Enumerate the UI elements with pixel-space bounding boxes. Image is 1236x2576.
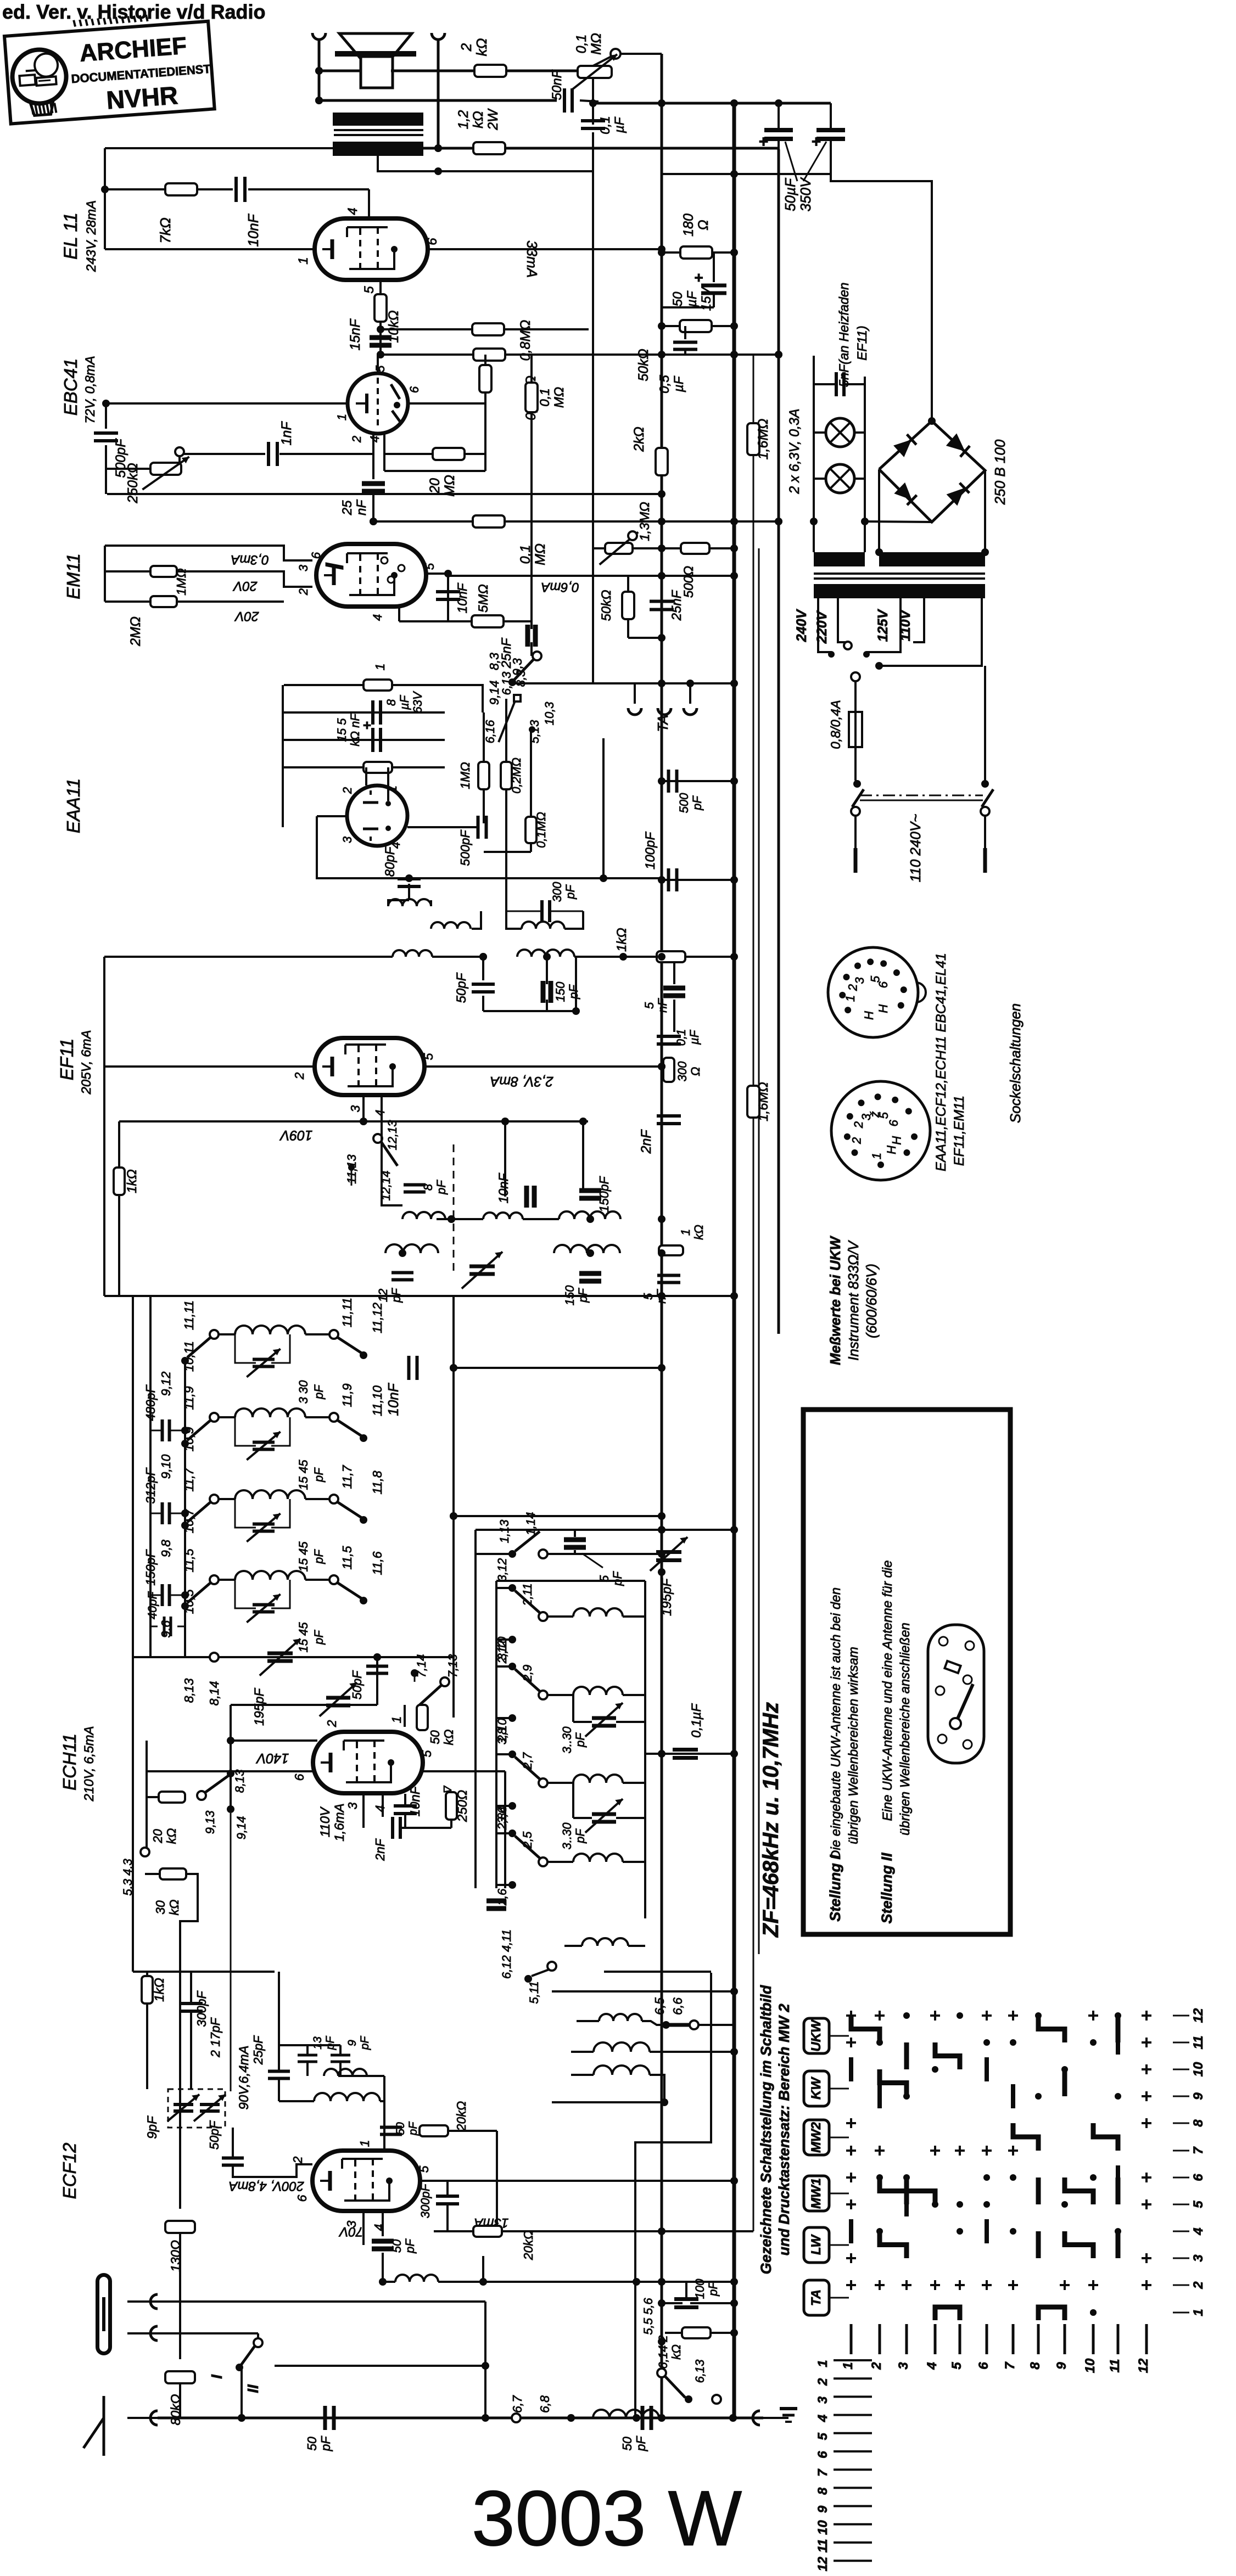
label 1kΩ ecf (152, 1978, 167, 2002)
svg-text:1,14: 1,14 (524, 1512, 538, 1536)
svg-text:1,3MΩ: 1,3MΩ (637, 502, 652, 541)
label 5pF bank (597, 1571, 624, 1586)
svg-text:0,1: 0,1 (574, 35, 589, 54)
label 300Ω (675, 1061, 702, 1081)
capacitor 50pF ecf c (372, 2241, 394, 2249)
svg-text:5: 5 (423, 563, 437, 570)
label 300pF ecf (194, 1990, 209, 2027)
svg-text:0,2MΩ: 0,2MΩ (510, 757, 523, 794)
junction 1337/188 (730, 99, 738, 107)
svg-text:30: 30 (153, 1900, 167, 1915)
svg-text:6,16: 6,16 (483, 720, 497, 744)
resistor 5MΩ (472, 615, 504, 627)
pin2 EM11 (297, 588, 310, 596)
pushbutton contact matrix (841, 2008, 1206, 2373)
label 50kΩ fm (428, 1730, 456, 1746)
wire 20M b (464, 453, 485, 455)
junction 920/2043 (501, 1118, 509, 1125)
svg-text:6,5: 6,5 (652, 1997, 667, 2015)
svg-text:3: 3 (1191, 2254, 1206, 2262)
junction 1205/999 (658, 545, 665, 552)
junction 1337/950 (730, 518, 738, 525)
capacitor 0.1µF (581, 121, 605, 128)
wire to rectifier top (831, 174, 932, 421)
svg-text:5,5 5,6: 5,5 5,6 (641, 2298, 655, 2335)
svg-text:8,13: 8,13 (233, 1769, 247, 1793)
svg-text:195pF: 195pF (252, 1688, 267, 1726)
label 200V (229, 2179, 305, 2193)
rail EBC41 left (105, 403, 107, 429)
junction 880/1743 (479, 953, 487, 961)
svg-text:2W: 2W (485, 108, 501, 131)
label 25nF r (669, 590, 684, 621)
svg-text:pF: pF (359, 2036, 371, 2051)
junction y270 (434, 144, 442, 152)
junction y183 (315, 97, 323, 104)
svg-text:8,3: 8,3 (514, 670, 528, 687)
wire 80p up (409, 876, 410, 878)
rail EL11 left (104, 148, 106, 249)
capacitor 2,6 (486, 1901, 506, 1909)
svg-text:2: 2 (815, 2378, 830, 2386)
wire ecf k2 (382, 2211, 384, 2236)
contact 6,7 (512, 2414, 521, 2422)
svg-text:2: 2 (846, 984, 860, 991)
wire 100p up (685, 2282, 687, 2299)
wire coil k up (482, 2256, 484, 2282)
svg-text:8: 8 (1191, 2119, 1206, 2127)
svg-text:+: + (362, 717, 371, 733)
wire 5nF down (673, 1000, 675, 1032)
label 150pF ef (553, 981, 580, 1002)
resistor 7kΩ (165, 183, 197, 195)
resistor 1MΩ eaa (363, 680, 392, 691)
wire y317 (662, 173, 831, 175)
rail bottom b (626, 2417, 763, 2420)
label 15kΩ 5nF (335, 713, 362, 747)
junction 884/4405 (482, 2414, 489, 2422)
rail y999 (593, 547, 662, 549)
speaker (335, 33, 416, 88)
trimmer 3-30pF b (573, 1783, 645, 1833)
EM11 target innards (320, 557, 405, 583)
capacitor 50pF fm (366, 1666, 388, 1674)
heater v left (813, 356, 815, 552)
rail eaa top2 (392, 685, 483, 712)
svg-text:pF: pF (573, 1828, 587, 1844)
svg-text:180: 180 (681, 214, 696, 237)
wire speaker top-left (319, 70, 361, 72)
svg-text:2,5: 2,5 (521, 1831, 534, 1849)
capacitor 150pF osc (579, 1191, 601, 1198)
junction 826/2492 (450, 1364, 457, 1372)
capacitor 150pF ef (543, 981, 551, 1003)
label 140V (255, 1750, 289, 1766)
svg-text:0,8/0,4A: 0,8/0,4A (829, 700, 843, 749)
wire 7,13 v (444, 1686, 445, 1709)
junction 1205/2762 (658, 1512, 665, 1520)
svg-text:pF: pF (318, 2435, 333, 2452)
svg-text:2MΩ: 2MΩ (128, 616, 143, 647)
label 50nF (550, 69, 564, 100)
label 500pF EBC41 (113, 438, 128, 478)
wire y3590 (604, 1971, 711, 1973)
wire 0.2M vertical seg (484, 355, 486, 403)
svg-text:50: 50 (394, 2122, 407, 2135)
junction speaker left (315, 67, 323, 75)
resistor 2kΩ (474, 65, 506, 77)
svg-text:110V: 110V (318, 1806, 333, 1837)
svg-text:5: 5 (815, 2432, 830, 2440)
svg-text:3: 3 (896, 2362, 911, 2370)
svg-text:240V: 240V (794, 608, 809, 642)
label 20k ech (150, 1828, 178, 1844)
svg-text:1: 1 (296, 257, 311, 264)
svg-text:9: 9 (1191, 2092, 1206, 2100)
bus vertical x1372 (753, 355, 754, 2231)
label 50pF bottom2 (620, 2435, 648, 2452)
svg-text:ZF=468kHz u. 10,7MHz: ZF=468kHz u. 10,7MHz (759, 1702, 783, 1938)
coil ecf b (314, 2093, 380, 2101)
switch I/II antenna (208, 2333, 275, 2393)
coil 6,6 row2 (571, 2042, 738, 2056)
bank mid rail (496, 1787, 505, 1788)
wire ef pin2 (297, 1065, 315, 1068)
label 5nF osc (641, 1289, 668, 1304)
svg-text:pF: pF (690, 795, 704, 811)
trimmer capacitor osc (462, 1252, 502, 1289)
svg-text:12: 12 (815, 2556, 830, 2571)
coil row1b (483, 1213, 523, 1219)
svg-text:25pF: 25pF (251, 2035, 265, 2065)
svg-text:Die eingebaute UKW-Antenne ist: Die eingebaute UKW-Antenne ist auch bei … (829, 1587, 843, 1860)
svg-text:MW2: MW2 (809, 2122, 824, 2153)
capacitor 9pF b (331, 2055, 350, 2062)
junction 1337/999 (730, 545, 738, 552)
svg-text:2nF: 2nF (373, 1838, 387, 1861)
capacitor 150pF (143, 1548, 188, 1606)
svg-text:1: 1 (389, 1716, 404, 1724)
svg-text:50pF: 50pF (454, 972, 469, 1003)
svg-text:1: 1 (843, 995, 857, 1002)
label 20V b (234, 609, 260, 624)
rail EF11 top3 (574, 956, 657, 958)
junction 1337/1603 (730, 876, 738, 884)
wire ant b (158, 2332, 258, 2334)
junction 884/4310 (482, 2362, 489, 2370)
switch contact 8,13 (210, 1653, 219, 1662)
label 10nF EL11 (245, 213, 261, 246)
label 1kΩ osc (679, 1225, 706, 1240)
TA pickup connectors (628, 683, 697, 715)
wire EBC41 grid (372, 434, 374, 454)
label 12pF (376, 1288, 403, 1303)
label 20k ecf b (521, 2230, 535, 2261)
dashed gang line (453, 1144, 455, 1273)
svg-text:pF: pF (324, 2036, 337, 2051)
svg-text:10: 10 (1191, 2062, 1206, 2076)
label 500pF bus (677, 793, 704, 813)
svg-text:11,5: 11,5 (340, 1546, 354, 1569)
wire ech pin4 (382, 1793, 384, 1817)
resistor 1kΩ osc (659, 1245, 683, 1255)
label 17pF (208, 2017, 222, 2058)
svg-text:1: 1 (335, 414, 349, 420)
capacitor 100pF bus (669, 868, 677, 891)
pin5 ef (421, 1053, 435, 1060)
pin6 ecf (295, 2195, 309, 2202)
junction 1205/3195 (658, 1750, 665, 1758)
wire 150po (590, 1202, 591, 1219)
label 1kΩ ef (125, 1169, 139, 1193)
svg-text:10: 10 (815, 2520, 830, 2535)
label 195pF bank (659, 1578, 674, 1616)
svg-text:300: 300 (550, 882, 564, 902)
resistor 130Ω (165, 2221, 195, 2233)
pin 4 EL11 (345, 207, 360, 215)
wire coil k c (438, 2281, 733, 2283)
label 130Ω (169, 2240, 183, 2272)
wire y1842b (575, 957, 577, 1011)
wire v268 a (146, 1972, 148, 1976)
svg-text:MΩ: MΩ (552, 387, 567, 408)
junction 1040/4405 (567, 2414, 575, 2422)
svg-text:MW1: MW1 (809, 2178, 824, 2209)
wire 0.1uF (668, 1044, 669, 1060)
junction 1135/1743 (619, 953, 627, 961)
junction 1205/1943 (658, 1063, 665, 1070)
capacitor 50nF (564, 88, 572, 113)
svg-text:2: 2 (340, 787, 354, 794)
wire y3726 b (339, 2045, 342, 2055)
rail EL11 top (105, 147, 333, 149)
svg-text:150: 150 (553, 981, 567, 1002)
label 1.6MΩ b (756, 1082, 771, 1121)
wire rail y270 (438, 147, 474, 150)
junction 1337/1245 (730, 680, 738, 687)
label sec3 (297, 1541, 326, 1572)
resistor 1.6MΩ a (747, 423, 759, 455)
mains switch pole 1 (840, 780, 868, 873)
svg-text:1kΩ: 1kΩ (152, 1978, 167, 2002)
coil row2 (385, 1244, 438, 1253)
coil row1c (559, 1211, 620, 1219)
wire y594 seg (662, 325, 734, 327)
svg-text:15nF: 15nF (348, 318, 363, 351)
label 25nF em (499, 637, 514, 669)
capacitor 50pF ecf a (222, 2158, 244, 2165)
capacitor 300pF ecf (180, 2003, 203, 2011)
svg-text:10nF: 10nF (455, 582, 470, 613)
svg-text:µF: µF (398, 694, 411, 710)
svg-text:10nF: 10nF (408, 1786, 423, 1816)
svg-text:1: 1 (373, 664, 387, 671)
heater v right (864, 377, 866, 552)
svg-text:3: 3 (297, 564, 310, 571)
svg-text:250kΩ: 250kΩ (125, 463, 141, 503)
svg-text:0,3mA: 0,3mA (231, 552, 269, 567)
junction 1062/2043 (579, 1118, 587, 1125)
label 1M eaa-top (373, 664, 387, 671)
svg-text:100: 100 (693, 2278, 707, 2299)
capacitor 25pF (268, 2072, 290, 2079)
wire 300p ecf a (446, 2181, 449, 2196)
wire EL11 pin5 down (379, 280, 382, 295)
capacitor 25nF em (528, 625, 535, 647)
label 3-30pF b (560, 1822, 587, 1850)
svg-text:5: 5 (373, 365, 387, 372)
label 250kΩ (125, 463, 141, 503)
label 109V (279, 1127, 312, 1143)
svg-text:pF: pF (403, 2238, 417, 2254)
svg-text:2: 2 (325, 1720, 339, 1727)
wire 50pf up (232, 2128, 234, 2158)
wire ef pin3 down (362, 1095, 365, 1121)
wire v560 (306, 2062, 309, 2076)
label 0.1MΩ pot (574, 33, 604, 55)
xfmr core (814, 574, 985, 579)
AM bank coil 2 (495, 1636, 645, 1743)
wire rail y183b (580, 100, 599, 102)
wire ef pin4 down (381, 1095, 383, 1132)
wire v217 (118, 1121, 120, 1168)
wire y1842 (483, 1010, 576, 1012)
matrix stub list (815, 2360, 872, 2571)
wire ech pin6 (147, 1770, 313, 1772)
resistor 10kΩ (374, 294, 387, 322)
svg-text:50: 50 (670, 291, 685, 306)
wire y1423 (662, 780, 734, 782)
label 110V 1.6mA (318, 1803, 347, 1841)
contact 9,14 dot (227, 1805, 234, 1813)
wire y3726 a (306, 2045, 309, 2055)
coil row2b (554, 1245, 620, 1253)
label 3-30pF a (560, 1726, 587, 1754)
xfmr bar a (814, 552, 865, 566)
wire cluster2 (690, 2302, 733, 2304)
svg-text:µF: µF (687, 1029, 701, 1045)
wire y1603 (662, 879, 734, 881)
label 0.1MΩ v (538, 387, 567, 408)
junction 1205/2831 (658, 1550, 665, 1558)
svg-text:8: 8 (1028, 2362, 1043, 2370)
bus vertical x1418 (778, 149, 780, 1334)
label 8pF (421, 1180, 448, 1195)
svg-text:6: 6 (815, 2451, 830, 2459)
svg-text:6,7: 6,7 (510, 2395, 524, 2413)
rail EBC41 left2 (105, 445, 107, 469)
wire ech pin3 (362, 1793, 365, 1828)
svg-text:MΩ: MΩ (533, 543, 548, 565)
junction 693/646 (377, 351, 384, 358)
svg-text:7: 7 (1003, 2361, 1017, 2370)
svg-text:3: 3 (345, 1802, 360, 1809)
svg-text:4: 4 (373, 1110, 387, 1117)
pointer lines 50µF (785, 142, 826, 181)
wire em j down (447, 574, 449, 621)
wire v242 low (132, 1657, 134, 1972)
junction 1205/2361 (658, 1292, 665, 1300)
wire v420 (230, 1705, 232, 1809)
FM tuned circuit 4 (159, 1546, 384, 1638)
svg-text:2nF: 2nF (639, 1129, 654, 1154)
svg-text:250 B 100: 250 B 100 (992, 439, 1008, 505)
wire rail y129 (438, 70, 475, 72)
rail y3628 (552, 1990, 734, 1993)
wire 40p b (177, 1626, 185, 1627)
wire EL11 g1 down (368, 189, 370, 220)
wire ecf pin1 up (383, 2130, 385, 2151)
svg-text:1,13: 1,13 (497, 1519, 511, 1544)
svg-text:übrigen Wellenbereiche anschli: übrigen Wellenbereiche anschließen (898, 1623, 913, 1836)
IF coil EAA c (506, 911, 583, 929)
pin 6 EL11 (425, 238, 440, 245)
svg-text:pF: pF (563, 884, 577, 900)
tube EL11 (315, 218, 428, 280)
svg-text:0,6mA: 0,6mA (541, 580, 579, 594)
junction 1337/1049 (730, 572, 738, 580)
wire x881 v (483, 712, 485, 762)
pin1 ecf (357, 2140, 372, 2147)
label 20k ecf a (454, 2101, 468, 2132)
wire v1144 (627, 576, 629, 592)
wire ech pin1 up (404, 1705, 406, 1727)
svg-text:200V, 4,8mA: 200V, 4,8mA (229, 2179, 305, 2193)
junction 1205/4405 (658, 2414, 665, 2422)
label 6,8 (538, 2395, 552, 2413)
heater top join (779, 355, 814, 356)
switch 9,13 (197, 1769, 247, 1834)
pin1 EBC41 (335, 414, 349, 420)
wire sec bottom tap (378, 156, 438, 171)
tube EAA11 (347, 785, 407, 846)
resistor 180Ω (680, 246, 712, 259)
wire ech k a (363, 1827, 393, 1828)
label 50pF fm (350, 1670, 364, 1699)
Stellung note box (803, 1410, 1010, 1934)
junction 826/2762 (450, 1512, 457, 1520)
wire v328 d (179, 2383, 181, 2418)
junction 745/1600 (405, 874, 413, 882)
svg-text:11,11: 11,11 (182, 1300, 196, 1330)
svg-text:ECH11: ECH11 (59, 1733, 80, 1791)
junction 1337/2361 (730, 1292, 738, 1300)
fuse 0.8/0.4A (849, 672, 862, 781)
svg-text:4: 4 (368, 436, 382, 442)
wire y2762 (454, 1515, 662, 1517)
header note (2, 1, 266, 23)
svg-text:H: H (862, 1011, 876, 1020)
wire eaa left lead (317, 815, 348, 817)
svg-text:kΩ: kΩ (473, 38, 490, 57)
resistor 0.1MΩ v (525, 383, 538, 412)
svg-text:7: 7 (815, 2468, 830, 2477)
svg-text:pF: pF (706, 2281, 720, 2297)
capacitor 0.5µF (673, 326, 697, 355)
tube EBC41 innards (356, 378, 401, 429)
antenna UKW dipole symbol (96, 2281, 112, 2347)
junction 1337/1743 (730, 953, 738, 961)
bank row2831 (543, 1553, 662, 1555)
rail y600 (381, 328, 589, 330)
svg-text:25: 25 (340, 500, 355, 515)
pin2 ech (325, 1720, 339, 1727)
switch 12,13 wave (345, 1120, 399, 1201)
pin3 eaa (340, 836, 354, 843)
bank lower contacts (500, 1929, 645, 2004)
svg-text:4: 4 (371, 614, 384, 621)
capacitor 10nF fm (409, 1356, 417, 1380)
